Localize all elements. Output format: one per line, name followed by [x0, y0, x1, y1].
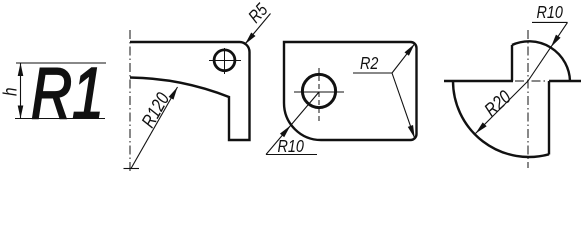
R10 leader	[266, 92, 319, 155]
hole cross horizontal	[209, 60, 241, 62]
R10 arrow	[549, 35, 561, 49]
R5 arrow	[243, 32, 256, 46]
arrow down	[18, 106, 24, 119]
lobe arc R10	[512, 41, 570, 81]
R10 underline	[266, 154, 317, 156]
edge left	[444, 80, 513, 82]
hole fig2	[214, 50, 235, 71]
hole cross vertical dashed	[318, 68, 320, 124]
stub left edge	[511, 45, 513, 81]
R2 arrow bottom	[408, 125, 418, 139]
R2 underline	[353, 72, 392, 74]
R2 leader top	[392, 44, 415, 73]
centerline	[129, 30, 131, 171]
R2 leader bottom	[392, 73, 415, 138]
R20 leader	[476, 81, 529, 134]
svg-text:h: h	[0, 88, 21, 96]
sector arc R20	[453, 81, 549, 157]
extension line top	[16, 62, 106, 64]
R120 leader	[131, 87, 178, 169]
R20 arrow	[474, 122, 487, 135]
centerline horizontal	[515, 80, 548, 82]
svg-text:R1: R1	[31, 53, 104, 134]
R10 arrow	[280, 124, 293, 138]
contour fig2	[130, 42, 250, 140]
hole fig3	[302, 74, 335, 107]
R5 leader	[245, 14, 271, 45]
svg-text:R10: R10	[278, 137, 304, 157]
R10 underline	[532, 21, 568, 23]
contour fig3	[284, 42, 417, 140]
R2 arrow top	[405, 42, 417, 56]
dimension line h	[20, 63, 22, 119]
edge right	[549, 80, 581, 82]
centerline vertical	[527, 30, 529, 168]
extension line bottom	[15, 118, 105, 120]
hole cross horizontal	[294, 91, 344, 93]
svg-text:R10: R10	[537, 3, 563, 23]
R120 arrow	[169, 86, 180, 100]
arrow up	[18, 63, 24, 76]
hole cross vertical	[224, 48, 226, 74]
leg edge	[548, 81, 550, 155]
svg-text:R2: R2	[360, 54, 378, 74]
R10 leader	[528, 22, 568, 81]
center tick	[124, 168, 140, 170]
